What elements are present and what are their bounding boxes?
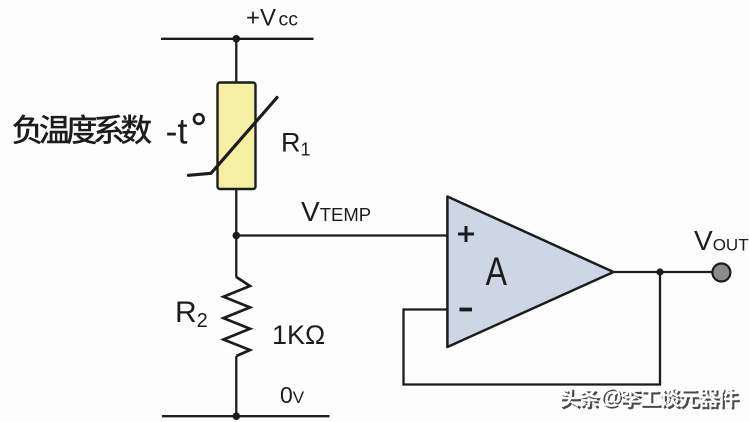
node VTEMP junction — [233, 232, 241, 240]
wire op-amp output — [614, 271, 713, 273]
wire +Vcc rail — [161, 38, 314, 40]
wire VTEMP to op-amp + input — [236, 234, 447, 236]
wire R1 top lead — [235, 39, 237, 84]
svg-text:+Vcc: +Vcc — [246, 5, 298, 32]
thermistor R1 NTC diagonal stroke — [189, 98, 278, 176]
wire R1 bottom lead to R2 — [235, 189, 237, 278]
watermark 头条@李工谈元器件 — [560, 383, 740, 410]
svg-text:@: @ — [600, 383, 621, 408]
svg-text:VOUT: VOUT — [694, 225, 749, 256]
wire feedback loop output to inverting input — [404, 272, 661, 385]
node 0v junction — [233, 412, 241, 420]
svg-text:0V: 0V — [280, 382, 305, 408]
resistor R2 zigzag — [224, 277, 251, 356]
svg-text:VTEMP: VTEMP — [301, 196, 371, 227]
thermistor R1 body — [218, 83, 256, 190]
op-amp non-inverting input + symbol — [458, 226, 474, 242]
node +Vcc junction — [233, 35, 241, 43]
op-amp inverting input - symbol — [460, 308, 473, 312]
svg-text:A: A — [486, 249, 508, 294]
svg-text:-t: -t — [166, 111, 188, 152]
wire 0v ground rail — [162, 415, 330, 417]
node output junction — [656, 268, 663, 275]
wire R2 bottom lead — [235, 356, 237, 416]
svg-text:1KΩ: 1KΩ — [272, 320, 325, 350]
op-amp A body — [447, 197, 613, 348]
annotation text 负温度系数 (negative temperature coefficient) — [13, 114, 152, 144]
svg-text:R2: R2 — [175, 296, 208, 332]
terminal VOUT pad — [712, 264, 730, 282]
svg-text:R1: R1 — [281, 128, 311, 160]
